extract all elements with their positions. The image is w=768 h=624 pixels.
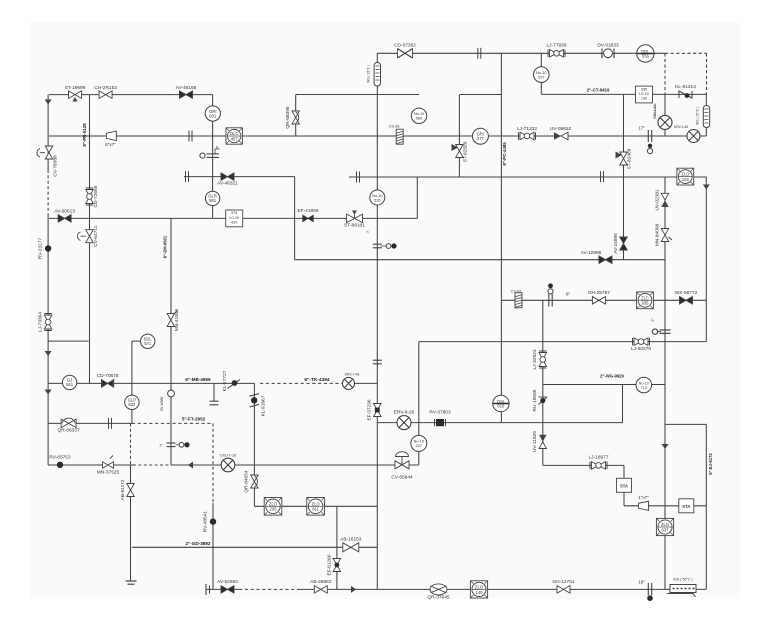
pipe: QR-68396 riser [295,95,297,137]
valve CV-65844 [395,452,409,469]
svg-text:1"x7": 1"x7" [638,495,649,500]
vent below 17in cap [648,144,652,148]
vent on GRI-601 riser [207,153,220,155]
svg-text:CV-78388: CV-78388 [53,155,59,177]
valve CD-07362 [398,49,413,58]
valve RV-48541 [210,518,216,524]
pipe: ST-88181 drop [416,177,418,218]
valve QR-37645 [430,584,447,595]
pipe: RV-65753 branch [48,464,133,466]
end cap bottom header [205,584,207,595]
svg-text:DRV-1-46: DRV-1-46 [674,125,688,129]
pipe: link ST-82599 corner to PC riser [460,94,502,96]
pipe break 8in with vent [548,294,550,307]
svg-text:EF-41999: EF-41999 [297,208,318,214]
svg-text:L0-10: L0-10 [229,216,239,220]
pipe: 5"-EJ-6172 top link [665,423,706,425]
svg-text:810: 810 [497,403,505,408]
instrument ZLO-140 [470,581,487,598]
pipe: dashed drop right B [706,53,708,94]
svg-text:WX-88772: WX-88772 [675,290,698,296]
svg-text:RV-65753: RV-65753 [49,455,71,461]
valve MN-37525 [103,456,114,469]
svg-text:AB-28862: AB-28862 [310,579,332,585]
svg-text:841: 841 [66,382,74,387]
svg-text:RV-37803: RV-37803 [429,410,451,416]
svg-text:QR-84654: QR-84654 [244,470,250,492]
svg-text:ST-88181: ST-88181 [344,223,365,229]
valve AB-16153 [343,543,359,552]
svg-text:GH-25757: GH-25757 [588,290,610,296]
svg-text:ZLO: ZLO [312,501,321,506]
flow arrow down left riser 3 [45,390,52,395]
setpoint box 375/L0-10/420 [226,210,243,227]
pipe 8"-PC-4485 riser [500,53,502,422]
instrument DRV-1-46 [687,130,700,143]
instrument QSL-810 [493,395,509,411]
valve KL-91414 [679,91,692,98]
pipe: bottom header left end [206,588,239,590]
svg-text:ZLO: ZLO [661,522,670,527]
pipe: RV-48541 drop dashed [212,423,214,503]
svg-text:637: 637 [662,527,670,532]
svg-text:h: h [367,230,369,234]
cap on x377 y246 [373,243,382,245]
svg-text:AV-48321: AV-48321 [217,181,238,187]
instrument GJ-841 [62,375,76,389]
svg-text:LJ-77939: LJ-77939 [546,43,566,49]
pipe: EF-61266 drop [336,506,338,589]
valve CD-72665 [86,188,94,205]
svg-text:AV-60613: AV-60613 [54,209,75,215]
svg-text:AV-12996: AV-12996 [581,250,602,256]
pipe: DXU header dashed part [133,464,171,466]
svg-text:536: 536 [374,198,380,202]
instrument SDL-571 [141,334,155,348]
valve WX-88772 [680,297,693,305]
instrument NO-536 [370,190,385,205]
pipe: RV-48541 drop [212,503,214,589]
valve KL-17727 [228,380,241,389]
flow arrow down x706 [703,185,710,190]
pipe break on break header [356,172,358,183]
valve ST-82599 [452,144,464,158]
pipe: break header to ZLO-103 [349,176,706,178]
svg-text:2"-WG-9629: 2"-WG-9629 [600,374,624,379]
valve LJ-71332 [519,132,536,140]
instrument ZLO-205 [264,498,282,516]
pipe: right riser x665 [664,177,666,589]
svg-text:18": 18" [638,580,645,585]
pipe: AV-48321 drop [294,177,296,260]
pipe: short link left [48,340,89,342]
svg-text:No-10: No-10 [639,381,649,385]
svg-text:2"-GD-3892: 2"-GD-3892 [186,541,211,546]
svg-text:CS-02: CS-02 [511,290,522,294]
valve LJ-18977 [590,462,607,470]
pipe: left riser dashed [47,170,49,215]
svg-text:KL-17727: KL-17727 [222,370,228,391]
pipe: bottom header [300,588,706,590]
svg-text:6"-MB-4959: 6"-MB-4959 [185,377,211,382]
svg-text:8"-PR-5128: 8"-PR-5128 [82,123,87,147]
svg-text:MN-37525: MN-37525 [97,470,120,476]
svg-text:LJ-60276: LJ-60276 [631,346,651,352]
flow arrow down x665 [662,444,669,449]
box STA upper [617,478,632,492]
svg-text:AB-81172: AB-81172 [120,479,126,500]
svg-text:No-10: No-10 [372,194,382,198]
valve CH-2R153 [99,91,112,99]
inline sight glass on DH riser [168,390,175,397]
svg-text:STA: STA [682,504,690,509]
svg-text:8"-PC-4485: 8"-PC-4485 [502,142,507,166]
svg-text:DRV-7-46: DRV-7-46 [345,373,360,377]
flow arrow right bottom header [351,586,356,593]
svg-text:395: 395 [641,87,647,91]
pipe: QR-66337 branch [48,422,132,424]
strainer CS-02 [515,293,522,308]
valve RU-19595 [539,397,548,405]
svg-text:DXU-7-18: DXU-7-18 [220,454,236,458]
reducer 6x7 [106,131,116,141]
valve AV-48321 [221,173,234,181]
instrument ZLO-637 [656,518,673,535]
svg-text:GH-12751: GH-12751 [552,579,574,585]
svg-text:ZLO: ZLO [681,172,690,177]
svg-text:CS-28: CS-28 [389,125,400,129]
valve MN-84098 [661,229,672,242]
svg-text:ZLC: ZLC [641,295,649,300]
pipe: left riser lower [47,215,49,465]
svg-text:811: 811 [312,507,319,512]
svg-text:LJ-32923: LJ-32923 [532,349,538,369]
valve LJ-60276 [633,338,650,346]
svg-text:No-10: No-10 [414,112,424,116]
svg-text:205: 205 [270,507,278,512]
instrument GLR-581 [205,191,219,205]
valve ST-88181 [347,211,363,223]
svg-text:5"-EJ-6172: 5"-EJ-6172 [708,453,713,475]
instrument DXU-7-18 [221,458,235,472]
svg-text:AV-52583: AV-52583 [217,579,238,585]
pipe: level gauge drop [705,95,707,137]
valve AB-81172 [127,484,135,497]
pipe 6"-DH-9901 riser [170,218,172,465]
pipe break top header [477,48,479,59]
svg-text:457: 457 [231,136,239,141]
svg-text:RU-19595: RU-19595 [532,389,538,411]
svg-text:MN-41846: MN-41846 [174,308,180,331]
instrument GLP-833 [125,395,139,409]
svg-text:581: 581 [209,198,217,203]
valve AV-24895 [620,237,628,250]
valve QR-66337 [61,418,76,428]
pipe: LJ-60276 header [419,341,706,343]
valve EF-37236 [374,404,382,417]
svg-text:AV-46168: AV-46168 [176,85,197,91]
pipe: CS-02 / GH-25757 / WX-88772 header [501,299,706,301]
svg-text:DLC: DLC [230,131,238,136]
svg-text:103: 103 [682,177,690,182]
svg-text:INS ( 50°C ): INS ( 50°C ) [673,578,692,582]
svg-text:CH-2R153: CH-2R153 [94,85,117,91]
pipe: dashed drop right A [664,53,666,94]
pipe: dashed continuation after DDL-556 [665,52,707,54]
pipe: top-left header ST-19699/CH-2R153/AV-46168 [49,94,213,96]
svg-text:L0-10: L0-10 [639,92,649,96]
svg-text:17": 17" [638,126,645,131]
svg-text:DV-01633: DV-01633 [597,43,619,49]
pipe 6"-TK-4394 dashed [260,382,344,384]
pipe: AV-12996 header [295,259,665,261]
svg-text:140: 140 [476,590,484,595]
pipe: AV-48321 branch [184,176,295,178]
level gauge INS-15C right [703,106,709,128]
valve UV-11829 [539,435,546,449]
instrument NO-237 [411,435,427,451]
svg-text:ST-82469: ST-82469 [627,148,633,169]
setpoint box 395/L0-10/130 [636,86,653,103]
svg-text:420: 420 [231,220,237,224]
valve LJ-73364 [44,314,52,331]
valve UV-02381 [661,193,668,207]
pipe: WG-9629 drop to RV line [622,385,624,423]
svg-text:ZLO: ZLO [475,584,484,589]
svg-text:No-10: No-10 [414,440,424,444]
svg-text:RV-48541: RV-48541 [203,511,209,533]
svg-text:5"-FT-2952: 5"-FT-2952 [182,417,206,422]
drain dot below 18in [647,595,653,601]
pipe 2"-WG-9629 [543,384,665,386]
svg-text:1": 1" [159,443,163,448]
pipe: STA box drop lower [623,492,625,506]
valve EF-61266 [333,559,341,572]
svg-text:833: 833 [128,402,136,407]
ground drain AB-81172 [126,580,137,582]
pipe break 17in [647,130,649,142]
valve AV-12996 [599,256,612,264]
valve RV-23177 [45,245,51,251]
pipe break left of GRI-601 riser [188,131,190,142]
svg-text:130: 130 [641,97,647,101]
pipe 2"-CT-6419 header [541,93,706,95]
pipe: GLP-833 riser [131,341,133,423]
svg-text:INS ( 15°C ): INS ( 15°C ) [367,65,371,83]
pipe break QR-66337 branch [108,418,110,429]
valve GH-25757 [592,297,605,305]
instrument ZLO-103 [677,168,694,185]
svg-text:537: 537 [538,75,544,79]
svg-text:935: 935 [642,301,650,306]
valve RV-37803 [435,419,446,426]
svg-text:No-10: No-10 [536,71,546,75]
pipe: AB-81172 drop dashed [130,423,132,465]
instrument ZLO-811 [307,498,325,516]
pipe: KL-91967 / QR-84654 drop [253,383,255,506]
svg-text:KL-91967: KL-91967 [261,395,267,416]
cap on stub x214 [210,400,219,402]
valve QR-84654 [251,475,259,488]
pipe: NO-237 drop [418,342,420,465]
pipe: DXU-7-18 / CV-65844 header [171,464,419,466]
svg-text:237: 237 [416,444,422,448]
svg-text:UV-05652: UV-05652 [550,126,572,132]
cap on DH line y444 [167,442,176,444]
pipe: link to SDL-571 [132,340,142,342]
vent cap on x665 with circle [660,329,671,331]
valve MN-41846 [167,311,177,327]
instrument DRV-7-46 [343,377,355,389]
svg-text:MN-84098: MN-84098 [655,223,661,246]
valve EF-41999 [303,215,314,222]
svg-text:CV-65844: CV-65844 [391,475,413,481]
pipe: LJ-18977 branch [543,464,624,466]
reducer 1x7 [639,501,649,510]
pipe 2"-GD-3892 [132,546,377,548]
pipe: TK-4394 solid end [353,382,377,384]
svg-text:ST-82599: ST-82599 [463,141,469,162]
valve ST-82469 [616,152,628,166]
pipe: GRI-601/GLR-581 riser [212,95,214,219]
pipe: LJ-32923 / UV-11829 drop [542,300,544,465]
valve CV-78388 [37,146,53,159]
pipe 5"-FT-2952 dashed [132,422,213,424]
pipe: STA box drop upper [623,465,625,478]
svg-text:UV-11829: UV-11829 [532,431,538,452]
pipe: AV-60613 / EF-41999 / ST-88181 header [49,217,417,219]
pipe 5"-EJ-6172 riser [705,424,707,589]
valve AV-60613 [58,215,71,223]
svg-text:6"x7": 6"x7" [105,142,116,147]
pipe: AB-81172 drop [130,465,132,581]
strainer CS-28 [396,129,403,144]
instrument NO-713 [636,377,652,393]
instrument DDL-556 [637,45,654,62]
valve CD-70578 [102,379,114,388]
valve AV-46168 [180,91,193,99]
pipe: ERV-1-10 drop [664,95,666,137]
svg-text:556: 556 [642,53,650,58]
pipe: stub with cap [213,383,215,401]
pipe 8"-PR-5128 riser [89,95,91,384]
svg-text:EF-37236: EF-37236 [367,399,373,420]
pipe break right header [600,171,602,182]
level gauge INS-15C left [374,63,380,87]
pipe: STA / 1x7 reducer branch [624,505,706,507]
pipe break 18in [647,583,649,596]
svg-text:6"-DH-9901: 6"-DH-9901 [163,235,168,258]
pipe: right riser upper x706 [705,177,707,342]
svg-text:KL-91414: KL-91414 [675,84,696,90]
pipe: left riser upper [47,95,49,170]
valve RV-65753 [57,462,63,468]
svg-text:STA: STA [620,483,628,488]
pipe break left end AV-48321 branch [185,171,187,182]
svg-text:EF-61266: EF-61266 [327,554,333,575]
svg-text:ERV-2-19: ERV-2-19 [653,103,657,116]
instrument ERV-8-26 [397,416,411,430]
svg-text:LJ-18977: LJ-18977 [588,455,608,461]
vent beside cap y246 [386,244,391,249]
svg-text:AV-24895: AV-24895 [613,233,619,254]
svg-text:RV-23177: RV-23177 [38,238,44,260]
pipe: QR-68396 riser header to NO-560 drop [296,94,419,96]
box STA lower [679,499,694,513]
svg-text:UV-02381: UV-02381 [655,189,661,211]
svg-text:CD-72665: CD-72665 [93,185,99,207]
svg-text:QR-66337: QR-66337 [58,428,80,434]
pipe: ZLO-205 / ZLO-811 branch [254,505,377,507]
valve CV-64711 [77,230,93,243]
pipe: ERV-8-26 / RV-37803 header [377,422,622,424]
svg-text:CD-07362: CD-07362 [394,43,416,49]
valve LJ-77939 [548,50,565,58]
svg-text:571: 571 [144,341,152,346]
instrument NO-560 [411,108,426,123]
valve UV-05652 [554,132,568,140]
svg-text:AB-16153: AB-16153 [340,537,362,543]
svg-text:375: 375 [231,211,237,215]
instrument GRI-601 [205,106,220,121]
svg-text:LJ-73364: LJ-73364 [38,312,44,332]
cap on x377 y362 [373,359,382,361]
instrument NO-537 [534,67,550,83]
svg-text:LJ-71332: LJ-71332 [517,126,537,132]
pipe: ST-82599 drop [458,95,460,178]
flow arrow down left riser [45,100,52,105]
svg-text:INS ( 15°C ): INS ( 15°C ) [696,107,700,125]
valve ST-19699 [69,91,82,102]
pipe: main horizontal header y136 [49,135,706,137]
pipe: ST-82469 / AV-24895 drop [623,95,625,260]
instrument DLC-457 [226,128,242,144]
valve AV-52583 [221,586,234,594]
pipe: NO-537 drop [540,53,542,94]
steam traced heater INS-50C [670,585,696,593]
valve GH-12751 [557,586,570,594]
flow arrow left DXU line [188,462,193,469]
svg-text:QR-37645: QR-37645 [427,595,449,601]
pipe 6"-MB-4959 [48,382,255,384]
valve LJ-32923 [539,351,547,368]
svg-text:2"-CT-6419: 2"-CT-6419 [587,88,610,93]
instrument ERV-1-10 [658,115,672,129]
valve QR-68396 [292,111,300,124]
svg-text:CD-70578: CD-70578 [97,373,119,379]
svg-text:601: 601 [209,113,217,118]
svg-text:ZLO: ZLO [269,501,278,506]
svg-text:DN 16888: DN 16888 [160,397,164,412]
vent beside cap y444 [179,442,184,447]
instrument ZLC-935 [637,292,654,309]
svg-text:QR-68396: QR-68396 [285,106,291,128]
flow arrow down left riser 2 [45,351,52,356]
pipe: central riser x377 [376,53,378,589]
pipe: top header CD-07362/DV-01633 [377,52,665,54]
svg-text:CV-64711: CV-64711 [93,225,99,246]
valve DV-01633 [602,49,614,59]
svg-text:ERV-8-26: ERV-8-26 [394,410,415,416]
svg-text:8": 8" [566,292,571,298]
svg-text:ST-19699: ST-19699 [65,85,86,91]
svg-text:713: 713 [641,386,647,390]
valve KL-91967 [250,394,260,407]
pipe: bottom header dashed part [239,588,300,590]
instrument GRI-377 [472,128,488,144]
valve AB-28862 [314,586,327,594]
svg-text:560: 560 [416,117,422,121]
